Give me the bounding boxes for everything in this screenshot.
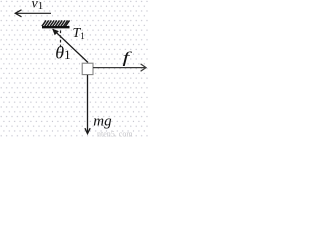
string / tension arrow T1 [52, 29, 88, 63]
weight arrow mg [85, 75, 90, 134]
dashed vertical reference line [60, 31, 62, 48]
svg-text:mg: mg [93, 113, 112, 129]
velocity arrow v1 [15, 10, 51, 17]
friction/drag arrow f [93, 64, 146, 71]
svg-text:nten5. com: nten5. com [97, 130, 133, 139]
ceiling support line [42, 26, 70, 28]
svg-text:v1: v1 [32, 0, 44, 12]
block (bob) [82, 63, 93, 74]
ceiling support hatching [42, 20, 70, 26]
